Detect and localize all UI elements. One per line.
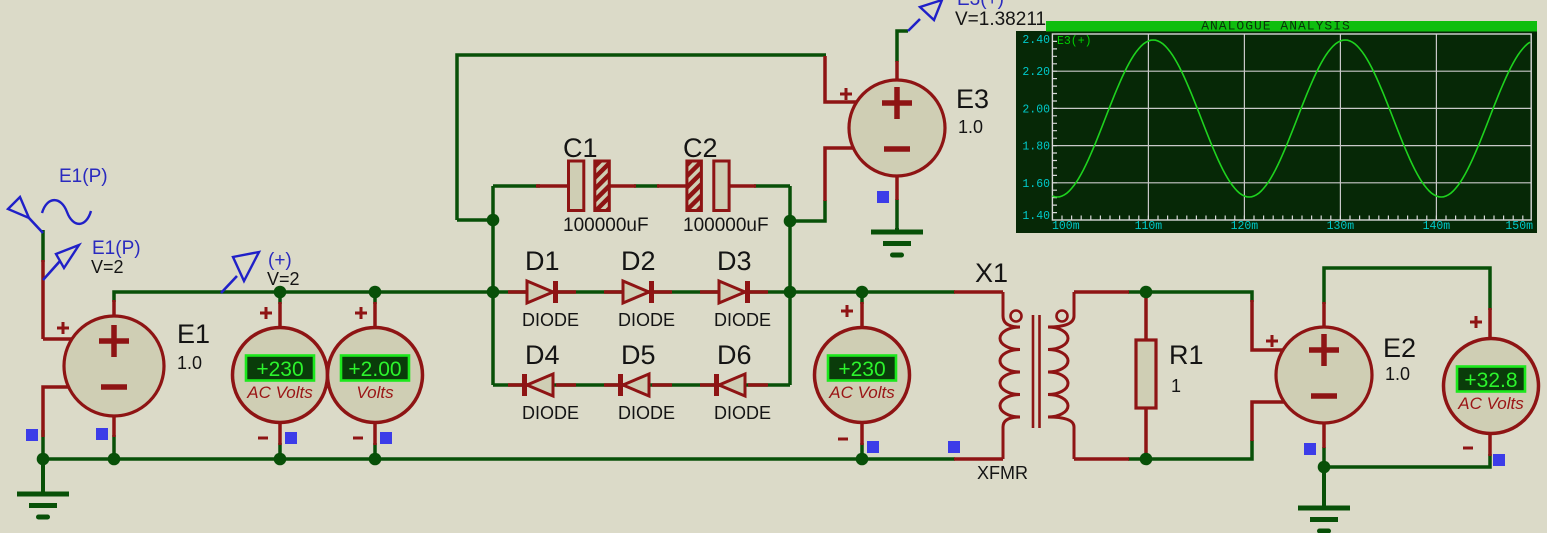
- capacitor C2 100000uF: [687, 161, 729, 211]
- wire: left rail of bridge: [491, 186, 495, 385]
- wire: tie left rail: [457, 218, 495, 222]
- diode D1: [527, 281, 556, 303]
- diode D4: [525, 374, 554, 396]
- svg-text:130m: 130m: [1327, 220, 1355, 233]
- wire: probe leg above E1: [41, 230, 45, 262]
- marker blue square E3: [877, 191, 889, 203]
- svg-text:AC Volts: AC Volts: [828, 383, 895, 402]
- svg-text:E2: E2: [1383, 333, 1416, 363]
- node: right rail E3 tie: [784, 215, 797, 228]
- svg-text:V=2: V=2: [267, 269, 300, 289]
- marker blue square left of transformer: [948, 441, 960, 453]
- svg-text:E3(+): E3(+): [1057, 35, 1092, 48]
- pin: M1 meter top and bottom: [278, 302, 282, 445]
- svg-text:ANALOGUE ANALYSIS: ANALOGUE ANALYSIS: [1201, 19, 1351, 34]
- svg-text:D4: D4: [525, 340, 560, 370]
- voltmeter M3 AC Volts +230: [815, 328, 910, 423]
- node: R1 top: [1140, 286, 1153, 299]
- marker blue square M2: [380, 432, 392, 444]
- wire: meter M1 pins: [278, 292, 282, 459]
- svg-text:DIODE: DIODE: [714, 403, 771, 423]
- svg-text:120m: 120m: [1231, 220, 1259, 233]
- svg-text:+2.00: +2.00: [348, 358, 401, 381]
- pin: E1 bottom: [112, 411, 116, 437]
- pin: E1 top: [112, 300, 116, 317]
- resistor R1: [1136, 340, 1156, 408]
- svg-text:140m: 140m: [1423, 220, 1451, 233]
- pin: E3 - control input: [825, 148, 854, 201]
- ground symbol bottom-left: [17, 459, 69, 517]
- pin: E3 + control input: [825, 56, 857, 102]
- pin: E3 top output: [895, 61, 899, 81]
- node: R1 bottom: [1140, 453, 1153, 466]
- svg-text:R1: R1: [1169, 340, 1204, 370]
- voltmeter M1 AC Volts +230: [233, 328, 328, 423]
- pin: M3 meter top and bottom: [860, 302, 864, 445]
- svg-text:1.60: 1.60: [1022, 178, 1050, 191]
- marker blue square M1: [285, 432, 297, 444]
- diode D2: [623, 281, 652, 303]
- svg-text:+32.8: +32.8: [1464, 369, 1517, 392]
- wire: right rail of bridge: [788, 186, 792, 385]
- pin: transformer secondary pins: [1074, 292, 1129, 459]
- svg-text:D5: D5: [621, 340, 656, 370]
- svg-text:Volts: Volts: [356, 383, 394, 402]
- node: left rail cap tie: [487, 214, 500, 227]
- node: M3 bottom: [856, 453, 869, 466]
- svg-text:E1(P): E1(P): [92, 238, 141, 259]
- svg-text:1.80: 1.80: [1022, 141, 1050, 154]
- svg-text:DIODE: DIODE: [714, 310, 771, 330]
- node: E2 ground: [1318, 461, 1331, 474]
- marker blue square E2: [1304, 443, 1316, 455]
- voltage source E3: [849, 80, 945, 176]
- svg-text:D2: D2: [621, 246, 656, 276]
- diode D3: [719, 281, 748, 303]
- pin: E2 - control input: [1252, 402, 1284, 441]
- svg-text:C1: C1: [563, 133, 598, 163]
- svg-text:C2: C2: [683, 133, 718, 163]
- node: M2 top: [369, 286, 382, 299]
- svg-text:E1: E1: [177, 319, 210, 349]
- svg-text:DIODE: DIODE: [618, 310, 675, 330]
- pin: diode row 2 pins: [508, 383, 768, 387]
- svg-text:+230: +230: [256, 358, 303, 381]
- wire: secondary top to R1 and E2: [1128, 292, 1252, 302]
- capacitor C1 100000uF: [569, 161, 610, 211]
- voltage probe E1(P): [43, 245, 79, 280]
- wire: E1 bottom pin to bus: [112, 435, 116, 459]
- node: ground bus left: [37, 453, 50, 466]
- pin: E3 bottom output: [895, 175, 899, 200]
- wire: bottom ground bus: [43, 430, 955, 459]
- wire: E2 bottom to ground and meter M4: [1324, 447, 1490, 467]
- pin: transformer primary pins: [954, 292, 1003, 459]
- svg-text:1.0: 1.0: [958, 117, 983, 137]
- analogue analysis graph window: [1016, 19, 1537, 234]
- node: M1 top tee: [274, 286, 287, 299]
- voltage probe (+) on bus: [221, 252, 259, 293]
- wire: meter M2 pins: [373, 292, 377, 459]
- wire: E2 output top loop to meter M4: [1324, 268, 1490, 310]
- wire: D4-D6 row return: [493, 383, 790, 387]
- pin: diode row 1 pins: [508, 290, 768, 294]
- pin: E2 top output: [1322, 302, 1326, 328]
- svg-text:DIODE: DIODE: [522, 403, 579, 423]
- svg-text:D1: D1: [525, 246, 560, 276]
- wire: outer loop top (bridge to E3 +): [457, 55, 826, 220]
- svg-text:D6: D6: [717, 340, 752, 370]
- voltmeter M2 Volts +2.00: [328, 328, 423, 423]
- wire: tie right rail to E3 minus: [790, 200, 825, 221]
- svg-text:E1(P): E1(P): [59, 166, 108, 187]
- svg-text:V=1.38211: V=1.38211: [955, 9, 1046, 30]
- svg-text:1.0: 1.0: [1385, 364, 1410, 384]
- diode D5: [621, 374, 650, 396]
- svg-text:1: 1: [1171, 376, 1181, 396]
- svg-text:2.20: 2.20: [1022, 66, 1050, 79]
- svg-text:100000uF: 100000uF: [683, 215, 769, 236]
- svg-text:100000uF: 100000uF: [563, 215, 649, 236]
- wire: E3 output to ground: [895, 199, 899, 232]
- svg-text:150m: 150m: [1505, 220, 1533, 233]
- svg-text:E3: E3: [956, 84, 989, 114]
- node: E1 bottom: [108, 453, 121, 466]
- generator probe E1(P): [8, 197, 91, 233]
- svg-text:DIODE: DIODE: [618, 403, 675, 423]
- pin: E1 + control input: [43, 260, 72, 339]
- svg-text:2.00: 2.00: [1022, 103, 1050, 116]
- marker blue square M3: [867, 441, 879, 453]
- marker blue square E1 bottom: [96, 428, 108, 440]
- svg-text:V=2: V=2: [91, 257, 124, 277]
- voltage probe E3(+): [908, 0, 942, 31]
- wire: E3 top pin to probe: [897, 31, 908, 62]
- node: bridge right rail top bus: [784, 286, 797, 299]
- voltmeter M4 AC Volts +32.8: [1444, 339, 1539, 434]
- wire: top bus from E1 to transformer primary: [114, 292, 955, 302]
- svg-text:+230: +230: [838, 358, 885, 381]
- svg-text:XFMR: XFMR: [977, 463, 1028, 483]
- pin: E1 - control input: [43, 387, 70, 437]
- pin: M2 meter top and bottom: [373, 302, 377, 445]
- svg-text:X1: X1: [975, 258, 1008, 288]
- node: bridge left rail top bus: [487, 286, 500, 299]
- voltage source E1: [64, 316, 164, 416]
- svg-text:2.40: 2.40: [1022, 34, 1050, 47]
- pin: capacitor pins: [536, 184, 756, 188]
- pin: R1 pins: [1144, 292, 1148, 459]
- pin: E2 bottom output: [1322, 422, 1326, 448]
- marker blue square M4: [1493, 454, 1505, 466]
- svg-text:1.40: 1.40: [1022, 210, 1050, 223]
- plotted trace E3(+) sine wave: [1052, 40, 1530, 197]
- wire: meter M3 pins: [860, 292, 864, 459]
- pin: M4 meter top and bottom: [1488, 308, 1492, 456]
- node: M3 top: [856, 286, 869, 299]
- wire: capacitor row: [493, 184, 790, 188]
- svg-text:100m: 100m: [1052, 220, 1080, 233]
- svg-text:1.0: 1.0: [177, 353, 202, 373]
- marker blue square E1 left: [26, 429, 38, 441]
- svg-text:D3: D3: [717, 246, 752, 276]
- ground symbol below E3: [871, 228, 923, 255]
- svg-text:AC Volts: AC Volts: [246, 383, 313, 402]
- svg-text:110m: 110m: [1135, 220, 1163, 233]
- transformer X1 XFMR: [1000, 292, 1074, 459]
- diode D6: [717, 374, 746, 396]
- svg-text:AC Volts: AC Volts: [1457, 394, 1524, 413]
- node: M2 bottom: [369, 453, 382, 466]
- svg-text:DIODE: DIODE: [522, 310, 579, 330]
- pin: E2 + control input: [1252, 300, 1284, 350]
- node: M1 bottom: [274, 453, 287, 466]
- ground symbol below E2: [1298, 467, 1350, 531]
- svg-text:(+): (+): [268, 250, 292, 271]
- wire: secondary bottom to R1 and E2: [1128, 440, 1252, 459]
- voltage source E2: [1276, 327, 1372, 423]
